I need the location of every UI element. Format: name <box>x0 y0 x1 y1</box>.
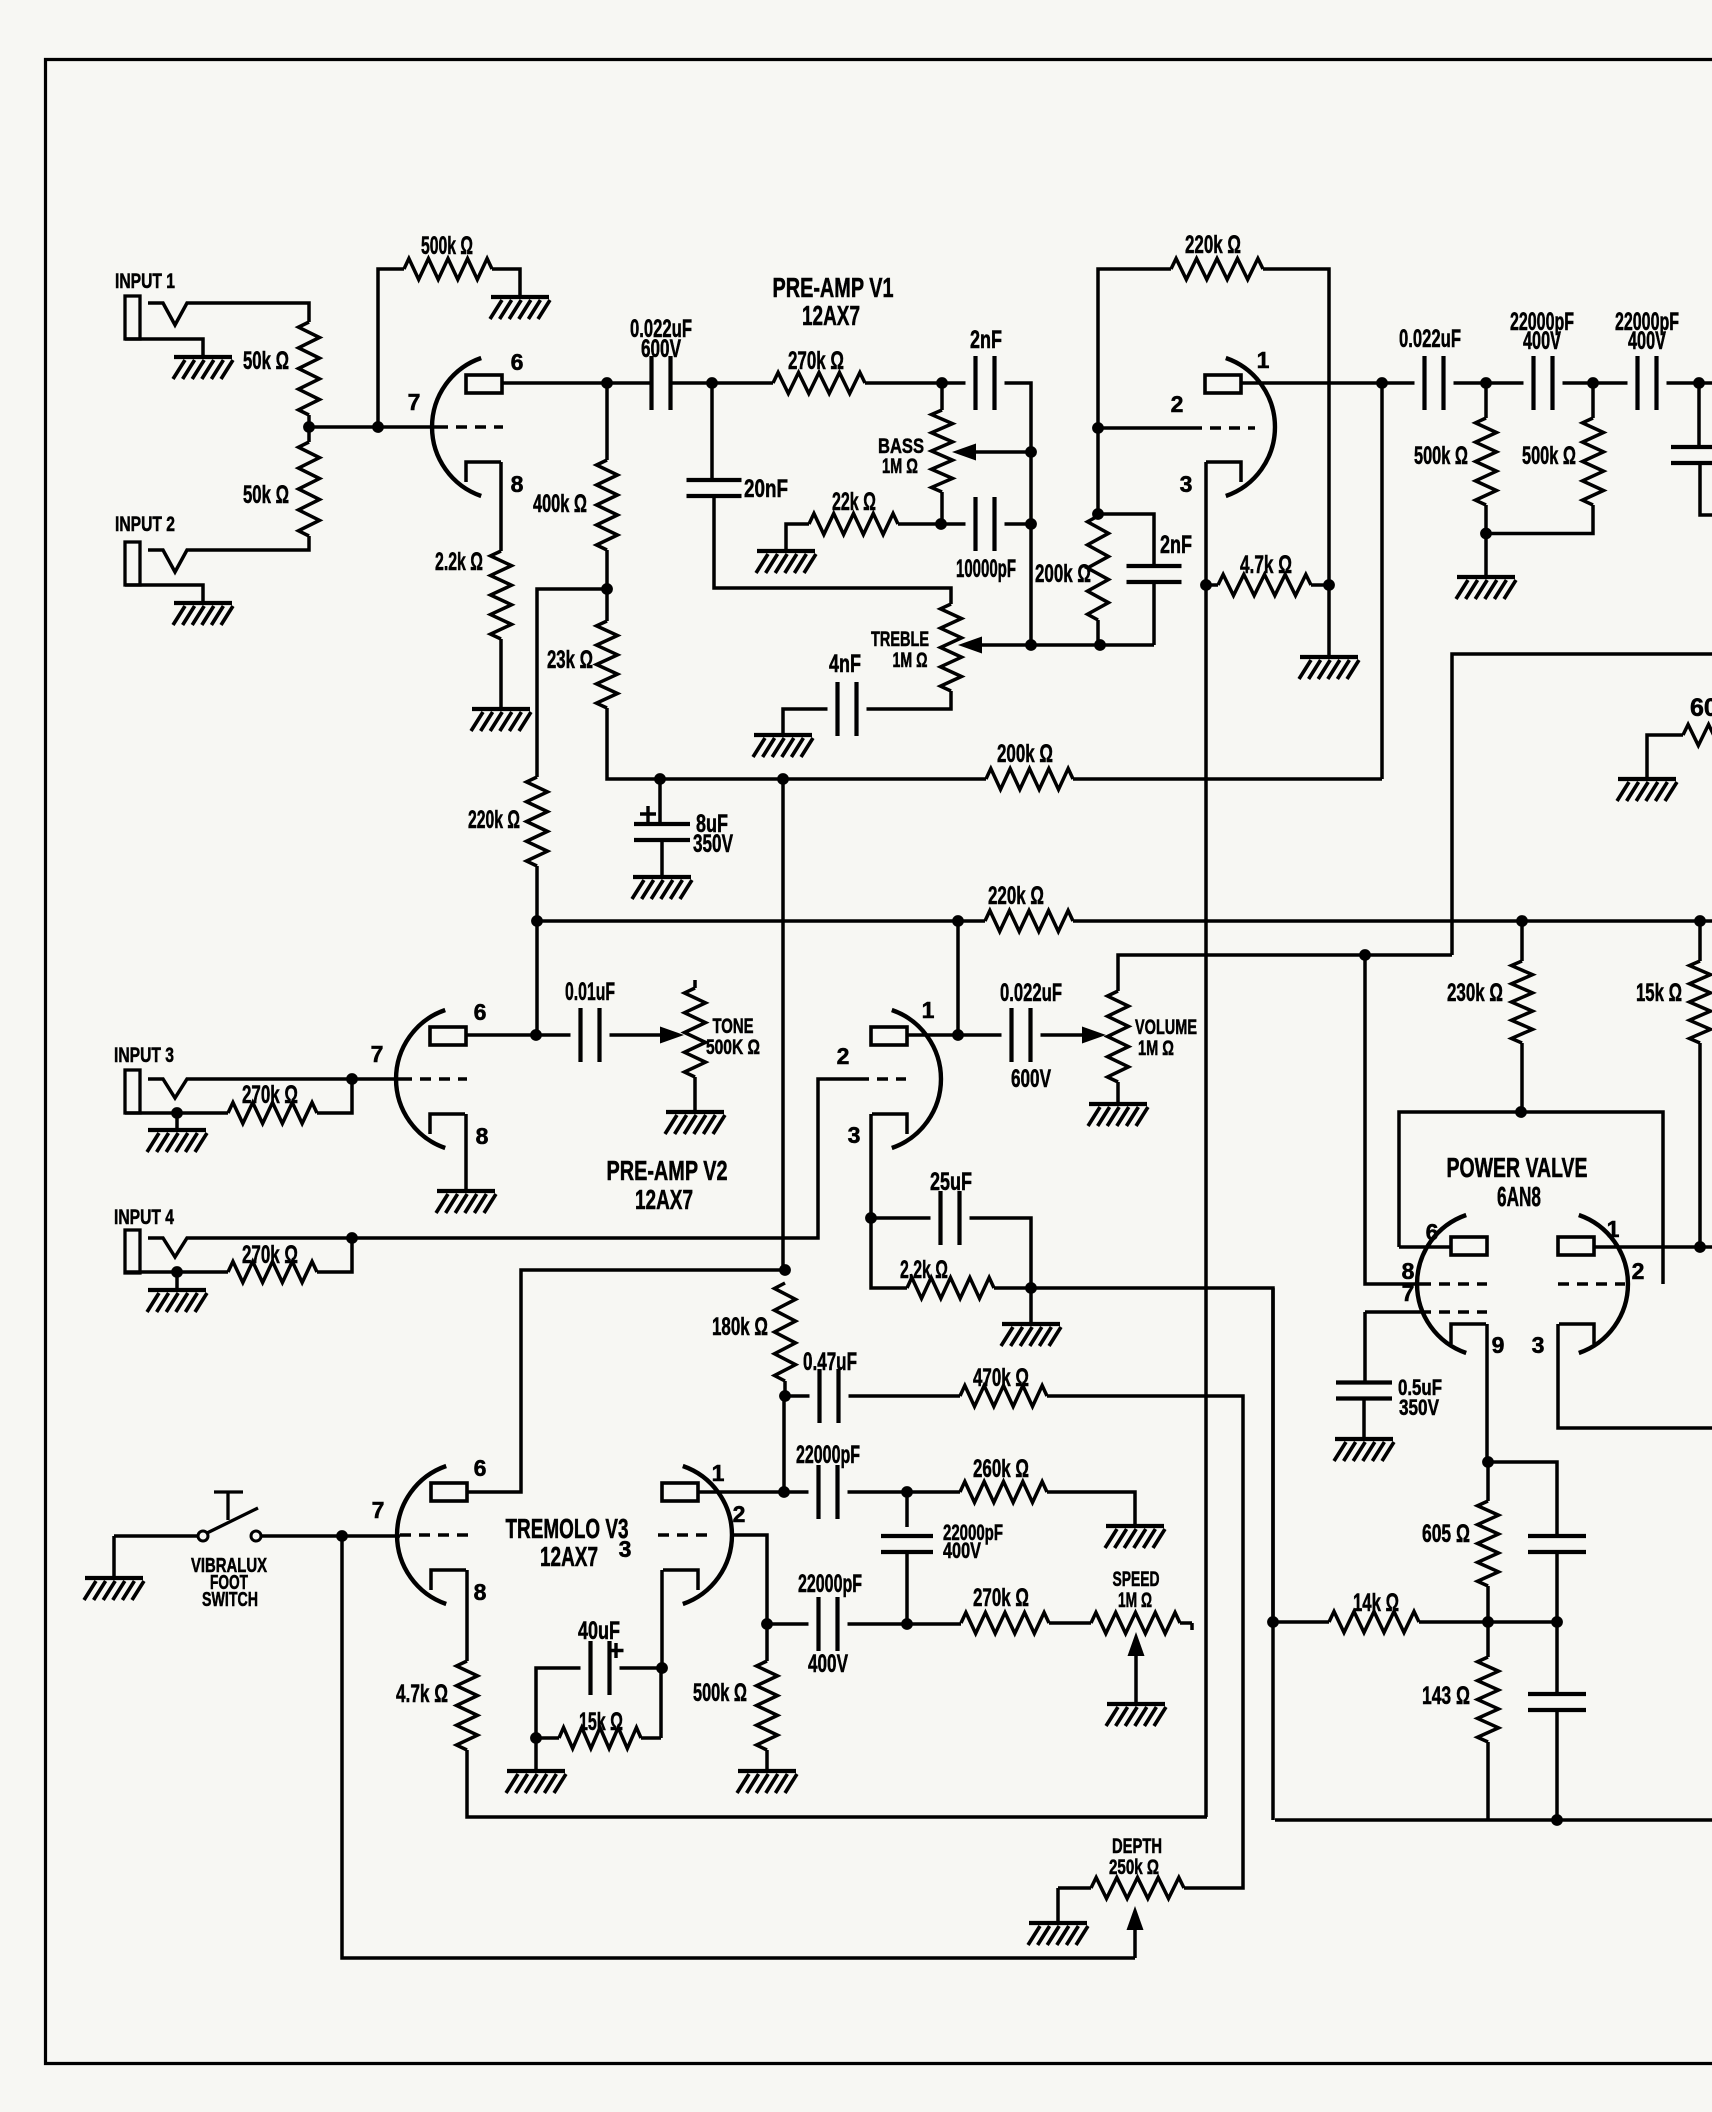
resistor 500k feedback <box>404 259 492 280</box>
wire 270k4 right leg <box>317 1238 352 1272</box>
svg-text:0.01uF: 0.01uF <box>565 978 615 1006</box>
wire 6AN8 g1 feed <box>1365 955 1420 1284</box>
wire 14k row <box>1273 1620 1557 1624</box>
wire 143 legs <box>1275 1622 1488 1820</box>
node speed row left <box>901 1618 913 1630</box>
jack INPUT 3 <box>125 1070 140 1113</box>
resistor 270k speed <box>961 1613 1049 1634</box>
resistor 400k <box>597 460 618 550</box>
node plate V1b <box>1376 377 1388 389</box>
wire cathode 6AN8 right <box>1558 1324 1712 1428</box>
resistor 270k ch1 <box>773 373 865 394</box>
triode V2a <box>396 1010 445 1148</box>
svg-text:3: 3 <box>1532 1332 1545 1358</box>
grid dashes V2a <box>401 1077 467 1081</box>
svg-text:180k Ω: 180k Ω <box>712 1313 768 1341</box>
node 4.7k right <box>1323 579 1335 591</box>
svg-text:1: 1 <box>922 997 935 1023</box>
wire cathode V2a <box>464 1114 468 1191</box>
ground VOLUME <box>1089 1102 1147 1106</box>
svg-text:500k Ω: 500k Ω <box>1414 442 1468 470</box>
node treble wiper bus <box>1025 639 1037 651</box>
wire cap to 500k a <box>1454 381 1524 385</box>
svg-text:23k Ω: 23k Ω <box>547 646 593 674</box>
wire 600 ground leg <box>1647 735 1683 779</box>
svg-text:260k Ω: 260k Ω <box>973 1455 1029 1483</box>
svg-text:4nF: 4nF <box>829 650 861 678</box>
svg-text:6: 6 <box>474 1455 487 1481</box>
svg-text:PRE-AMP V1: PRE-AMP V1 <box>773 272 894 303</box>
svg-text:40uF: 40uF <box>578 1617 620 1645</box>
node 500k V3 top <box>761 1618 773 1630</box>
wire 22000pF t2 row <box>767 1622 907 1626</box>
svg-text:3: 3 <box>848 1122 861 1148</box>
resistor 500k a <box>1476 418 1497 505</box>
svg-text:6: 6 <box>1426 1219 1439 1245</box>
svg-text:1: 1 <box>712 1460 725 1486</box>
grid dashes V2b <box>858 1077 906 1081</box>
ground 15k V3 <box>507 1769 565 1773</box>
wire 220k lv bottom <box>535 866 539 921</box>
ground 8uF <box>633 875 691 879</box>
wire plate bus y779 <box>660 777 986 781</box>
svg-text:TREBLE: TREBLE <box>871 628 929 651</box>
resistor 220k top <box>1171 259 1263 280</box>
wire 605 cap link <box>1488 1462 1557 1535</box>
resistor 15k V3 <box>559 1728 641 1749</box>
wiper TONE <box>610 1033 663 1037</box>
wire tremolo plate feed <box>781 779 785 1270</box>
wire 25uF right link <box>970 1218 1032 1288</box>
wire treble bottom <box>867 691 952 709</box>
wire to 10000pF <box>941 522 966 526</box>
wire speed row <box>907 1622 961 1626</box>
wire cap b out <box>1667 381 1712 385</box>
svg-text:400V: 400V <box>943 1538 981 1563</box>
ground cathode V2a <box>437 1189 495 1193</box>
wire 0.01uF link <box>536 1033 571 1037</box>
svg-text:2.2k Ω: 2.2k Ω <box>435 548 483 576</box>
wire 220k mid row left <box>537 919 985 923</box>
wire 270k3 right leg <box>317 1079 352 1113</box>
svg-text:50k Ω: 50k Ω <box>243 481 289 509</box>
wire 22k to node <box>898 522 941 526</box>
node plate 6AN8 right <box>1694 1241 1706 1253</box>
node V2b plate branch <box>952 915 964 927</box>
capacitor 0.5uF <box>1336 1383 1392 1399</box>
wire 23k top link <box>605 383 609 460</box>
wire 22000pF t1 out <box>848 1490 961 1494</box>
resistor 500k b <box>1583 418 1604 505</box>
wire 6AN8 g2 feed <box>1365 1312 1420 1384</box>
svg-text:220k Ω: 220k Ω <box>988 882 1044 910</box>
capacitor right edge <box>1671 447 1712 463</box>
wire volume top <box>1118 955 1452 991</box>
svg-text:1M Ω: 1M Ω <box>893 649 928 672</box>
svg-text:7: 7 <box>1402 1280 1415 1306</box>
svg-text:500k Ω: 500k Ω <box>421 232 473 260</box>
node input4 gnd <box>171 1266 183 1278</box>
potentiometer DEPTH 250k <box>1091 1878 1184 1899</box>
capacitor 22000pF t3 <box>881 1536 933 1552</box>
svg-text:6: 6 <box>474 999 487 1025</box>
resistor 23k <box>597 621 618 708</box>
wire 15k V3 links <box>536 1668 661 1738</box>
wire plate V1a <box>502 381 607 385</box>
wire cathode return right <box>1488 1818 1712 1822</box>
node 10000pF bus <box>1025 518 1037 530</box>
svg-text:DEPTH: DEPTH <box>1112 1835 1162 1858</box>
svg-text:VOLUME: VOLUME <box>1135 1016 1197 1039</box>
svg-text:400V: 400V <box>808 1650 848 1678</box>
wire cathode V2b leg <box>869 1114 873 1218</box>
wire 20nF bottom <box>714 497 951 604</box>
wire 4.7k V3 bottom <box>467 1750 1207 1817</box>
capacitor 22000pF a <box>1534 356 1553 410</box>
wire bass top leg <box>940 383 944 410</box>
node 40uF right <box>656 1662 668 1674</box>
wire 220k top left leg <box>1098 269 1171 516</box>
svg-text:50k Ω: 50k Ω <box>243 347 289 375</box>
capacitor 8uF electrolytic <box>634 824 690 840</box>
wire 22k ground leg <box>786 524 809 551</box>
capacitor 2nF second <box>1127 566 1182 582</box>
jack INPUT 1 <box>125 296 140 339</box>
svg-text:270k Ω: 270k Ω <box>242 1241 298 1269</box>
svg-text:270k Ω: 270k Ω <box>788 347 844 375</box>
svg-text:500k Ω: 500k Ω <box>693 1679 747 1707</box>
wire 50k lower to grid node <box>307 427 311 442</box>
ground 500k feedback <box>491 295 549 299</box>
wire volume bottom <box>1116 1082 1120 1104</box>
grid dashes 6AN8 right <box>1558 1282 1625 1286</box>
resistor 2.2k V2b <box>907 1278 994 1299</box>
svg-text:12AX7: 12AX7 <box>802 300 860 331</box>
wiper BASS <box>976 450 1031 454</box>
svg-text:7: 7 <box>372 1497 385 1523</box>
wire cap to 500k b <box>1563 381 1628 385</box>
wire right edge cap legs <box>1699 383 1712 515</box>
svg-text:8: 8 <box>474 1579 487 1605</box>
ground TONE <box>666 1110 724 1114</box>
ground DEPTH <box>1029 1921 1087 1925</box>
resistor 50k upper <box>299 322 320 415</box>
wire plate V2a <box>466 1033 536 1037</box>
svg-text:270k Ω: 270k Ω <box>973 1584 1029 1612</box>
capacitor 40uF <box>591 1641 610 1695</box>
wire plate 6AN8 right <box>1594 1245 1712 1249</box>
ground input3 <box>148 1128 206 1132</box>
svg-text:250k Ω: 250k Ω <box>1109 1856 1159 1879</box>
node 500k join <box>1480 528 1492 540</box>
wire power valve box <box>1399 1112 1663 1284</box>
node input4 grid <box>346 1232 358 1244</box>
node 8uF tap <box>654 773 666 785</box>
wire 0.47uF drop <box>782 1396 786 1492</box>
svg-text:400V: 400V <box>1628 327 1666 355</box>
wire footswitch to grid <box>261 1534 400 1538</box>
node 500k b top <box>1587 377 1599 389</box>
node bass top <box>936 377 948 389</box>
svg-text:0.47uF: 0.47uF <box>803 1348 857 1376</box>
node 180k top <box>779 1264 791 1276</box>
wire bus 654 right <box>1452 654 1712 955</box>
svg-text:8: 8 <box>511 471 524 497</box>
svg-text:20nF: 20nF <box>744 475 788 503</box>
wire input2 sleeve <box>125 585 203 603</box>
wire plate 6AN8 left <box>1399 1245 1451 1249</box>
node 4.7k left <box>1200 579 1212 591</box>
wire V1b plate row <box>1382 381 1415 385</box>
svg-text:605 Ω: 605 Ω <box>1422 1520 1470 1548</box>
ground 4.7k V1b <box>1300 655 1358 659</box>
wire 220k mid row right <box>1073 919 1712 923</box>
svg-text:6: 6 <box>511 349 524 375</box>
svg-text:230k Ω: 230k Ω <box>1447 979 1503 1007</box>
wire 500k right leg <box>492 269 520 297</box>
capacitor 20nF <box>687 480 742 496</box>
svg-text:143 Ω: 143 Ω <box>1422 1682 1470 1710</box>
grid dashes V1a <box>437 425 503 429</box>
node V3b plate left <box>778 1486 790 1498</box>
triode V2b <box>892 1010 941 1148</box>
wire input3 sleeve <box>125 1111 228 1115</box>
svg-text:7: 7 <box>408 389 421 415</box>
svg-text:1M Ω: 1M Ω <box>1138 1037 1174 1060</box>
wire 500k b legs <box>1486 383 1593 534</box>
wire 2.2k ground leg <box>1029 1288 1033 1324</box>
wire footswitch ground leg <box>112 1536 116 1578</box>
node input3 gnd <box>171 1107 183 1119</box>
svg-text:200k Ω: 200k Ω <box>1035 560 1091 588</box>
resistor 50k lower <box>299 442 320 536</box>
wire 10000pF to bus <box>1005 522 1032 526</box>
ground footswitch <box>85 1576 143 1580</box>
wire 15k legs <box>1698 921 1702 1247</box>
svg-text:0.022uF: 0.022uF <box>1399 325 1461 353</box>
capacitor 0.022uF ch1 <box>652 356 671 410</box>
node tremolo feed tap <box>777 773 789 785</box>
svg-text:2: 2 <box>1171 391 1184 417</box>
svg-text:SPEED: SPEED <box>1113 1568 1160 1591</box>
svg-text:350V: 350V <box>693 830 733 858</box>
wire 15k ground leg <box>534 1738 538 1771</box>
wire plate row a <box>607 381 773 385</box>
wire 25uF top link <box>871 1216 931 1220</box>
wire grid V3b feed <box>732 1535 767 1624</box>
wire 23k bottom <box>607 708 660 779</box>
svg-text:600V: 600V <box>641 335 681 363</box>
node 400k-23k <box>601 583 613 595</box>
svg-text:220k Ω: 220k Ω <box>468 806 520 834</box>
svg-text:400V: 400V <box>1523 327 1561 355</box>
capacitor 25uF <box>941 1191 960 1245</box>
node 230k top <box>1516 915 1528 927</box>
wire bypass lower legs <box>1555 1622 1559 1820</box>
svg-text:2.2k Ω: 2.2k Ω <box>900 1256 948 1284</box>
resistor 4.7k V3 <box>457 1661 478 1750</box>
svg-text:25uF: 25uF <box>930 1168 972 1196</box>
svg-text:TONE: TONE <box>713 1015 754 1038</box>
svg-text:TREMOLO V3: TREMOLO V3 <box>506 1513 629 1544</box>
wire 4.7k ends <box>1206 583 1329 587</box>
svg-text:12AX7: 12AX7 <box>540 1541 598 1572</box>
triode V3b <box>683 1466 732 1604</box>
svg-text:1: 1 <box>1257 347 1270 373</box>
svg-text:15k Ω: 15k Ω <box>1636 979 1682 1007</box>
wire 8uF top <box>658 779 662 824</box>
wire input4 gnd leg <box>175 1272 179 1290</box>
switch VIBRALUX foot switch <box>198 1531 208 1541</box>
resistor 270k input4 <box>228 1262 317 1283</box>
ground 2.2k V2b <box>1002 1322 1060 1326</box>
grid dashes 6AN8 g1 <box>1420 1282 1487 1286</box>
wire t3 bottom leg <box>905 1553 909 1625</box>
svg-text:PRE-AMP V2: PRE-AMP V2 <box>607 1155 728 1186</box>
resistor 15k <box>1690 961 1711 1043</box>
wire 220k right leg <box>1263 269 1329 585</box>
svg-text:470k Ω: 470k Ω <box>973 1364 1029 1392</box>
node power valve B+ <box>1515 1106 1527 1118</box>
wire input1 sleeve <box>125 339 203 357</box>
wire 2.2k right link <box>994 1286 1031 1290</box>
wire input4 sleeve <box>125 1270 228 1274</box>
wire grid V2b feed <box>352 1079 858 1238</box>
svg-text:6AN8: 6AN8 <box>1497 1181 1541 1212</box>
ground 500k V3 <box>738 1769 796 1773</box>
svg-text:7: 7 <box>371 1041 384 1067</box>
wire 270k to bass <box>865 381 942 385</box>
svg-text:14k Ω: 14k Ω <box>1353 1589 1399 1617</box>
wire 2.2k left link <box>871 1218 907 1288</box>
wire V1b cathode long drop <box>1204 585 1208 1817</box>
svg-text:22k Ω: 22k Ω <box>832 488 876 516</box>
svg-text:4.7k Ω: 4.7k Ω <box>396 1680 448 1708</box>
ground 260k <box>1106 1524 1164 1528</box>
wire bass bottom leg <box>940 492 944 524</box>
svg-text:9: 9 <box>1492 1332 1505 1358</box>
node 2.2k out <box>1025 1282 1037 1294</box>
wire 500k left leg <box>378 269 404 427</box>
node volume bus tap <box>1359 949 1371 961</box>
grid dashes V3a <box>400 1533 468 1537</box>
wire 500k join to ground <box>1484 534 1488 578</box>
wiper DEPTH <box>1133 1928 1137 1958</box>
ground input1 <box>174 355 232 359</box>
svg-text:POWER VALVE: POWER VALVE <box>1447 1152 1588 1183</box>
node 500k a top <box>1480 377 1492 389</box>
wire tremolo bias bus <box>1031 1288 1273 1622</box>
wire 8uF bottom <box>660 840 664 877</box>
svg-text:INPUT 4: INPUT 4 <box>114 1206 174 1229</box>
wiper TREBLE line <box>982 643 1154 647</box>
wire 0.5uF ground leg <box>1362 1399 1366 1440</box>
node 14k left <box>1267 1616 1279 1628</box>
wire 180k bottom <box>783 1381 787 1396</box>
node 15k top <box>1694 915 1706 927</box>
wire 470k to depth <box>1047 1396 1243 1888</box>
wire grid V1a <box>309 425 437 429</box>
svg-text:15k Ω: 15k Ω <box>579 1708 623 1736</box>
triode V1b <box>1226 358 1275 496</box>
node treble wiper 200k <box>1094 639 1106 651</box>
svg-text:3: 3 <box>619 1536 632 1562</box>
svg-text:0.022uF: 0.022uF <box>1000 979 1062 1007</box>
ground 4nF <box>754 733 812 737</box>
wire input2 tip <box>148 536 309 572</box>
node 25uF left <box>865 1212 877 1224</box>
capacitor 22000pF t2 <box>819 1597 838 1651</box>
node grid V1a <box>372 421 384 433</box>
wire plate V3b <box>698 1490 809 1494</box>
wire 2nF2 top link <box>1098 514 1154 566</box>
resistor 2.2k V1a <box>491 551 512 639</box>
wire cathode V1b leg <box>1204 462 1208 585</box>
node footswitch grid <box>336 1530 348 1542</box>
jack INPUT 4 <box>125 1230 140 1273</box>
node bass bottom <box>935 518 947 530</box>
potentiometer TONE 500K <box>693 980 697 988</box>
resistor 500k V3 <box>757 1661 778 1750</box>
wire 400k to 23k <box>605 550 609 621</box>
svg-text:350V: 350V <box>1399 1395 1439 1420</box>
ground SPEED <box>1107 1702 1165 1706</box>
wire input3 tip <box>148 1079 352 1098</box>
capacitor 2nF bass <box>976 356 995 410</box>
svg-text:60: 60 <box>1690 694 1712 722</box>
grid dashes V3b <box>658 1533 714 1537</box>
wire footswitch left <box>114 1534 197 1538</box>
potentiometer BASS 1M <box>932 410 953 492</box>
wire 50k upper to grid node <box>307 415 311 427</box>
wire 230k legs <box>1520 921 1524 1112</box>
wire 0.47uF row <box>785 1394 960 1398</box>
node 200k top <box>1092 508 1104 520</box>
wire 2nF to down-bus <box>1005 383 1032 645</box>
wire grid V1b <box>1098 426 1191 430</box>
svg-text:INPUT 1: INPUT 1 <box>115 270 175 293</box>
wire plate V1b <box>1241 381 1382 385</box>
wire 500k a legs <box>1484 383 1488 533</box>
capacitor 0.47uF <box>820 1369 839 1423</box>
svg-text:1M Ω: 1M Ω <box>882 455 918 478</box>
triode V1a <box>432 358 481 496</box>
svg-text:2: 2 <box>1632 1258 1645 1284</box>
svg-text:2nF: 2nF <box>1160 531 1192 559</box>
ground input4 <box>148 1288 206 1292</box>
resistor 230k <box>1512 961 1533 1043</box>
node right edge cap <box>1693 377 1705 389</box>
svg-text:2: 2 <box>733 1501 746 1527</box>
resistor 200k horizontal <box>986 769 1073 790</box>
node 605 bottom <box>1482 1616 1494 1628</box>
wire V2a plate drop <box>535 921 539 1035</box>
capacitor 10000pF <box>976 497 995 551</box>
capacitor bypass lower <box>1528 1694 1586 1710</box>
capacitor 0.022uF V2b <box>1012 1008 1031 1062</box>
resistor 600 partial <box>1683 725 1712 746</box>
wire 40uF right link <box>620 1666 663 1670</box>
svg-text:22000pF: 22000pF <box>796 1441 860 1469</box>
resistor 22k <box>809 514 898 535</box>
wire cathode V1a <box>499 462 503 551</box>
resistor 180k <box>775 1283 796 1381</box>
svg-text:270k Ω: 270k Ω <box>242 1081 298 1109</box>
wiper VOLUME <box>1041 1033 1083 1037</box>
svg-text:INPUT 3: INPUT 3 <box>114 1044 174 1067</box>
capacitor 22000pF b <box>1638 356 1657 410</box>
node 220k lv bottom <box>531 915 543 927</box>
